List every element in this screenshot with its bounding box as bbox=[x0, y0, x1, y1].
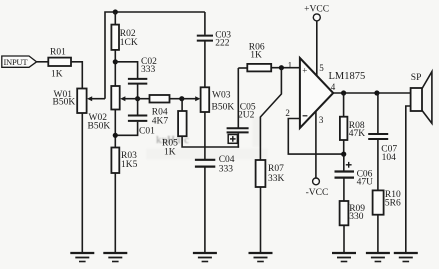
svg-text:47U: 47U bbox=[357, 178, 374, 188]
wire C04 to ground bbox=[204, 168, 206, 253]
resistor R05 bbox=[162, 99, 187, 158]
svg-text:LM1875: LM1875 bbox=[329, 71, 366, 82]
wire pin1 node to R07 bbox=[260, 68, 281, 160]
ground under R10 bbox=[366, 253, 390, 262]
svg-text:B50K: B50K bbox=[212, 103, 235, 113]
wire R05 bottom to C05 bottom bbox=[182, 136, 239, 147]
node output/C07 junction bbox=[374, 90, 379, 95]
capacitor C05 bbox=[227, 68, 256, 148]
ground under W01 bbox=[70, 253, 94, 262]
svg-text:1K: 1K bbox=[51, 70, 63, 80]
ground under R09 bbox=[332, 253, 356, 262]
ground under speaker bbox=[394, 253, 418, 262]
wire R04 to node bbox=[170, 98, 183, 100]
wire R06 to op-amp pin 1 bbox=[271, 67, 300, 69]
capacitor C04 bbox=[195, 155, 235, 174]
resistor R02 bbox=[111, 25, 137, 50]
input connector INPUT bbox=[2, 56, 37, 67]
svg-text:222: 222 bbox=[215, 38, 230, 48]
svg-text:3: 3 bbox=[319, 115, 324, 125]
svg-text:INPUT: INPUT bbox=[3, 57, 28, 67]
wire C03 to W03 top bbox=[204, 41, 206, 87]
capacitor C06 bbox=[335, 154, 374, 188]
svg-text:104: 104 bbox=[382, 153, 397, 163]
wire W01 wiper riser to top rail bbox=[105, 12, 205, 99]
capacitor C02 bbox=[128, 57, 157, 84]
+VCC terminal bbox=[304, 4, 329, 21]
resistor R08 bbox=[340, 93, 365, 140]
wire R08 to feedback node bbox=[343, 140, 345, 154]
svg-text:4: 4 bbox=[331, 82, 336, 92]
potentiometer W02 bbox=[88, 86, 138, 131]
resistor R09 bbox=[340, 179, 366, 226]
svg-text:333: 333 bbox=[141, 65, 156, 75]
op-amp U1 LM1875 bbox=[285, 58, 365, 128]
potentiometer W03 bbox=[182, 87, 234, 112]
node W02/C01/R03 junction bbox=[113, 133, 118, 138]
resistor R01 bbox=[48, 48, 71, 80]
wire R10 to ground bbox=[377, 215, 379, 252]
speaker SP bbox=[411, 72, 432, 124]
svg-text:+: + bbox=[302, 66, 307, 76]
svg-text:SP: SP bbox=[411, 73, 422, 83]
wire +VCC to pin 5 bbox=[316, 21, 318, 76]
wire R03 to ground bbox=[114, 173, 116, 252]
wire C02 branch bbox=[115, 62, 137, 78]
node R06/pin1 junction bbox=[279, 65, 284, 70]
wire W01 bottom to ground bbox=[81, 113, 83, 252]
node C02/W02 wiper junction bbox=[135, 96, 140, 101]
svg-text:B50K: B50K bbox=[53, 97, 76, 107]
svg-text:5: 5 bbox=[319, 63, 324, 73]
wire R01 to W01 top bbox=[71, 62, 82, 89]
svg-text:B50K: B50K bbox=[88, 121, 111, 131]
svg-text:333: 333 bbox=[219, 165, 234, 175]
svg-text:+VCC: +VCC bbox=[304, 4, 329, 14]
resistor R04 bbox=[138, 95, 170, 127]
svg-text:330: 330 bbox=[349, 212, 364, 222]
ground under C04 bbox=[193, 253, 217, 262]
wire R02 bottom to W02 top bbox=[114, 50, 116, 86]
svg-text:R07: R07 bbox=[268, 164, 284, 174]
wire pin 3 to -VCC bbox=[315, 111, 317, 178]
resistor R03 bbox=[111, 148, 137, 174]
capacitor C03 bbox=[197, 31, 231, 49]
svg-text:-VCC: -VCC bbox=[306, 188, 329, 198]
ground under R07 bbox=[249, 253, 273, 262]
-VCC terminal bbox=[306, 178, 329, 198]
potentiometer W01 bbox=[53, 89, 106, 114]
wire pin 2 feedback bbox=[288, 119, 343, 155]
ground under R03 bbox=[103, 253, 127, 262]
wire W02 bottom to R03 bbox=[114, 110, 116, 148]
svg-text:47K: 47K bbox=[349, 129, 366, 139]
svg-text:2: 2 bbox=[285, 108, 290, 118]
svg-text:4K7: 4K7 bbox=[152, 117, 169, 127]
wire W03 bottom to C04 bbox=[204, 112, 206, 159]
svg-text:R01: R01 bbox=[50, 48, 66, 58]
wire top rail to C03 bbox=[204, 12, 206, 35]
resistor R06 bbox=[238, 42, 271, 71]
node output/R08 junction bbox=[341, 90, 346, 95]
svg-text:1K5: 1K5 bbox=[121, 160, 138, 170]
node R04/R05/W03 junction bbox=[179, 96, 184, 101]
wire output rail bbox=[333, 92, 410, 94]
capacitor C07 bbox=[368, 93, 397, 163]
wire input to R01 bbox=[37, 61, 49, 63]
svg-text:1K: 1K bbox=[250, 51, 262, 61]
wire C01 bottom to R03 node bbox=[115, 122, 137, 136]
svg-text:5R6: 5R6 bbox=[385, 199, 401, 209]
wire R09 to ground bbox=[343, 225, 345, 252]
wire top rail to R02 bbox=[114, 12, 116, 25]
wire speaker return to ground bbox=[406, 106, 411, 252]
resistor R07 bbox=[256, 160, 285, 187]
node R02/W02/C02 junction bbox=[113, 59, 118, 64]
svg-text:33K: 33K bbox=[268, 174, 285, 184]
svg-text:C01: C01 bbox=[139, 127, 155, 137]
svg-text:2U2: 2U2 bbox=[238, 110, 255, 120]
node top rail junction bbox=[113, 9, 118, 14]
svg-text:1K: 1K bbox=[164, 148, 176, 158]
svg-text:1CK: 1CK bbox=[120, 38, 138, 48]
capacitor C01 bbox=[128, 99, 155, 137]
svg-text:W03: W03 bbox=[212, 91, 231, 101]
wire C02 bottom to wiper line bbox=[137, 85, 139, 99]
svg-text:1: 1 bbox=[288, 60, 293, 70]
resistor R10 bbox=[373, 140, 401, 215]
wire R07 to ground bbox=[260, 187, 262, 252]
node R08/C06/pin2 junction bbox=[341, 152, 346, 157]
